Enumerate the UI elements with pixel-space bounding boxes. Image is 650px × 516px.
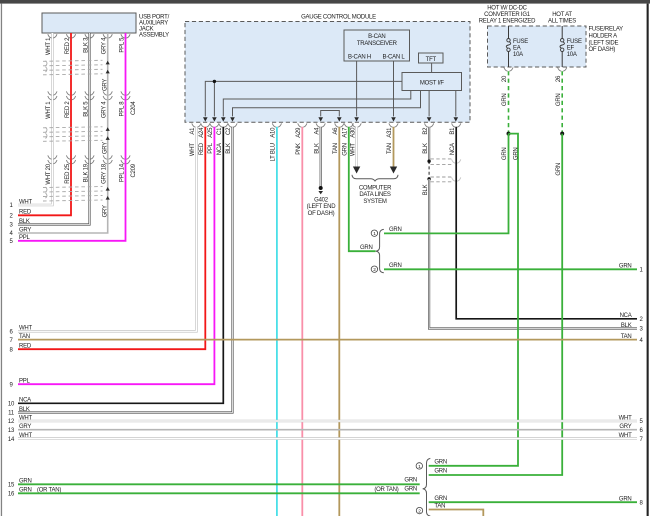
- arrow WHT A30 to computer data lines: [353, 167, 360, 174]
- svg-text:20: 20: [502, 75, 508, 82]
- svg-text:(OR TAN): (OR TAN): [374, 487, 398, 493]
- svg-text:EA: EA: [513, 46, 521, 52]
- wire LT BLU pin A10 to bottom edge: [276, 127, 278, 516]
- GRN label on dashed EF wire: [556, 94, 562, 107]
- connector label C209: [131, 163, 137, 177]
- svg-text:WHT 1: WHT 1: [46, 101, 52, 119]
- svg-text:NCA: NCA: [217, 143, 223, 155]
- svg-text:TFT: TFT: [426, 57, 437, 63]
- wire BLK pin B2 upper segment: [428, 127, 430, 161]
- svg-text:COMPUTER: COMPUTER: [359, 185, 392, 191]
- svg-text:11: 11: [8, 411, 15, 417]
- svg-text:GRN: GRN: [514, 148, 520, 161]
- svg-text:GRY 4: GRY 4: [102, 37, 108, 54]
- hot at all times label: [548, 12, 576, 25]
- splice dot on EA GRN wire: [507, 132, 511, 136]
- module pin A6 connector: [335, 123, 344, 127]
- splice dot on BLK at inline connector bottom: [427, 177, 430, 180]
- circled 2 connector id: [371, 266, 377, 273]
- svg-text:(LEFT END: (LEFT END: [307, 204, 337, 210]
- left edge row 3 BLK: [9, 219, 29, 229]
- pin label C2: [226, 127, 232, 135]
- svg-text:FUSE: FUSE: [513, 39, 528, 45]
- GRN label bottom splice wire 1a: [434, 459, 447, 465]
- wire TAN pin A6 to bottom edge: [338, 127, 340, 516]
- svg-text:HOT W/ DC-DC: HOT W/ DC-DC: [487, 6, 527, 12]
- svg-text:C2: C2: [226, 127, 232, 135]
- GRN label bottom splice wire 1b: [434, 469, 447, 475]
- inline connector C209 on wire PPL pin 14: [121, 155, 130, 163]
- TFT box: [419, 53, 444, 63]
- inline connector C204 on wire PPL pin 8: [121, 91, 130, 99]
- wire WHT pin A1 to left edge row 6: [18, 127, 196, 331]
- pin entry arrow at x=393.5: [391, 117, 396, 121]
- connector at fuse box, fuse EF output pin 26: [558, 67, 567, 71]
- svg-text:TAN: TAN: [434, 503, 445, 509]
- svg-text:A31: A31: [387, 127, 393, 138]
- svg-text:OF DASH): OF DASH): [308, 211, 335, 217]
- left edge row 14 WHT: [8, 433, 33, 443]
- connector at USB assembly, wire GRY 4: [103, 34, 112, 38]
- fuse/relay holder A dashed box: [488, 26, 587, 67]
- shield drain arrows section 3: [106, 187, 110, 200]
- USB port/auxiliary jack assembly box: [42, 13, 136, 33]
- svg-text:13: 13: [8, 428, 15, 434]
- svg-text:OF DASH): OF DASH): [589, 47, 616, 53]
- label PPL 14: [119, 163, 125, 182]
- svg-text:RED: RED: [19, 210, 32, 216]
- svg-text:AUXILIARY: AUXILIARY: [139, 20, 168, 26]
- svg-text:GRY: GRY: [19, 227, 31, 233]
- svg-text:DATA LINES: DATA LINES: [359, 192, 391, 198]
- wire PPL from USB assembly pin 5 down to left edge row: [18, 33, 126, 241]
- svg-text:16: 16: [8, 492, 15, 498]
- svg-text:PNK: PNK: [296, 143, 302, 155]
- svg-text:RED 2: RED 2: [65, 37, 71, 54]
- left edge row 8 RED: [9, 344, 31, 354]
- wire RED pin A24 to left edge row 8: [18, 127, 205, 349]
- svg-text:26: 26: [556, 75, 562, 82]
- connector label C204: [131, 101, 137, 115]
- pin entry arrow at x=429.1: [427, 117, 432, 121]
- svg-text:GRN: GRN: [556, 163, 562, 176]
- svg-text:PPL 14: PPL 14: [119, 163, 125, 182]
- internal wire MOST I/F to pin C2: [233, 91, 421, 117]
- svg-text:LT BLU: LT BLU: [271, 143, 277, 161]
- GRN label on dashed EA wire: [502, 94, 508, 107]
- right edge row 7 WHT: [619, 433, 644, 443]
- left edge row 4 GRY: [9, 227, 31, 237]
- middle splice brace: [376, 229, 384, 272]
- svg-text:BLK: BLK: [423, 184, 429, 195]
- computer data lines system label: [359, 185, 392, 205]
- GRY shield label section 2: [102, 142, 108, 154]
- module pin A4 connector: [316, 123, 325, 127]
- label RED 25: [65, 163, 71, 183]
- pin label B2: [423, 127, 429, 135]
- svg-text:GRN: GRN: [389, 263, 402, 269]
- module pin A30 connector: [352, 123, 361, 127]
- wire RED from USB assembly pin 2 down to left edge row: [18, 33, 71, 215]
- (OR TAN) GRN label row 16 at splice: [374, 487, 417, 493]
- svg-text:GRY 4: GRY 4: [102, 101, 108, 118]
- left edge row 7 TAN: [9, 334, 29, 344]
- wire color label PPL at pin A25: [208, 142, 214, 154]
- svg-text:GRN: GRN: [434, 469, 447, 475]
- svg-text:10A: 10A: [567, 52, 577, 58]
- pin label A17: [343, 127, 349, 138]
- left edge row 9 PPL: [9, 379, 30, 389]
- label BLK 5: [83, 101, 89, 117]
- computer data lines brace: [352, 175, 398, 181]
- svg-text:C204: C204: [131, 101, 137, 115]
- wire BLK from USB assembly pin 3 down to left edge row: [18, 33, 90, 225]
- circled 1 connector id: [371, 230, 377, 237]
- svg-text:MOST I/F: MOST I/F: [420, 80, 444, 86]
- svg-text:A6: A6: [333, 127, 339, 135]
- left edge row 5 PPL: [9, 235, 30, 245]
- GRN wire EF main down to bottom splice: [429, 134, 563, 475]
- wire BLK pin B2 lower segment to right edge row 3: [429, 179, 637, 329]
- GRN label splice 2 wire: [389, 263, 402, 269]
- pin entry arrow at x=232.5: [230, 117, 235, 121]
- wire PPL pin A25 to left edge row 9: [18, 127, 214, 384]
- wire WHT left row 14 to right row 7: [18, 437, 637, 440]
- svg-text:GRN: GRN: [343, 143, 349, 156]
- svg-text:JACK: JACK: [139, 27, 154, 33]
- wire color label TAN at pin A6: [333, 143, 339, 154]
- GRN label incoming A17 wire: [360, 245, 373, 251]
- svg-text:B1: B1: [450, 127, 456, 135]
- svg-text:FUSE: FUSE: [567, 39, 582, 45]
- svg-text:SYSTEM: SYSTEM: [363, 199, 386, 205]
- splice dot on BLK at inline connector top: [427, 160, 430, 163]
- GRN label EA main below dot: [502, 148, 508, 161]
- internal wire TFT to MOST I/F: [431, 63, 433, 73]
- label WHT 20: [46, 163, 52, 184]
- label BLK 3: [83, 37, 89, 53]
- svg-text:GRN: GRN: [404, 478, 417, 484]
- svg-text:RELAY 1 ENERGIZED: RELAY 1 ENERGIZED: [479, 19, 536, 25]
- fuse EA 10A: [506, 26, 528, 67]
- svg-text:TAN: TAN: [387, 143, 393, 154]
- svg-text:A4: A4: [314, 127, 320, 135]
- svg-text:GRN: GRN: [434, 459, 447, 465]
- svg-text:WHT: WHT: [19, 199, 32, 205]
- wire color label BLK at pin B2: [423, 143, 429, 154]
- wire color label LT BLU at pin A10: [271, 143, 277, 161]
- right edge row 2 NCA: [620, 313, 644, 323]
- svg-text:10A: 10A: [513, 52, 523, 58]
- svg-text:EF: EF: [567, 46, 575, 52]
- inline connector C204 on wire RED pin 2: [66, 91, 75, 99]
- wire NCA pin C1 to left edge row 10: [18, 127, 223, 404]
- arrow TAN A31 to computer data lines: [390, 167, 397, 174]
- inline connector C209 on wire GRY pin 18: [103, 155, 112, 163]
- wire GRN (OR TAN) left row 16 to bottom splice: [18, 492, 420, 494]
- left edge row 16 GRN (OR TAN): [8, 488, 61, 498]
- wire color label BLK at pin C2: [226, 143, 232, 154]
- module pin A1 connector: [192, 123, 201, 127]
- wire color label BLK at pin A4: [314, 143, 320, 154]
- twisted/shielded bundle section 2: [43, 127, 103, 142]
- svg-text:BLK: BLK: [423, 143, 429, 154]
- label RED 2: [65, 101, 71, 118]
- svg-text:A17: A17: [343, 127, 349, 138]
- module pin A29 connector: [298, 123, 307, 127]
- right edge row 4 TAN: [621, 334, 644, 344]
- wire color label WHT at pin A30: [350, 143, 356, 156]
- pin label A10: [271, 127, 277, 138]
- svg-text:B-CAN H: B-CAN H: [348, 55, 371, 61]
- connector at USB assembly, wire PPL 5: [121, 34, 130, 38]
- GRN label row 15 at splice: [404, 478, 417, 484]
- wire color label PNK at pin A29: [296, 143, 302, 155]
- svg-text:CONVERTER IG1: CONVERTER IG1: [484, 12, 531, 18]
- module pin A24 connector: [201, 123, 210, 127]
- circled 2 connector id bottom: [416, 507, 422, 514]
- module pin A31 connector: [389, 123, 398, 127]
- svg-text:GRN: GRN: [502, 94, 508, 107]
- internal wire MOST I/F to pins A24 and A25: [205, 80, 402, 117]
- svg-text:NCA: NCA: [620, 313, 632, 319]
- wire color label TAN at pin A31: [387, 143, 393, 154]
- module pin C1 connector: [219, 123, 228, 127]
- svg-text:C209: C209: [131, 163, 137, 177]
- GRY shield label section 3: [102, 205, 108, 217]
- pin label A4: [314, 127, 320, 135]
- internal wire B-CAN L to pin A31: [393, 61, 395, 116]
- svg-text:PPL: PPL: [19, 235, 31, 241]
- USB port assembly label: [139, 14, 170, 38]
- hot w/ dc-dc converter feed label: [479, 6, 536, 25]
- module pin C2 connector: [228, 123, 237, 127]
- svg-text:PPL 5: PPL 5: [119, 37, 125, 53]
- pin entry arrow at x=214.4: [212, 117, 217, 121]
- connector at USB assembly, wire RED 2: [66, 34, 75, 38]
- svg-text:TRANSCEIVER: TRANSCEIVER: [357, 41, 398, 47]
- wire GRY left row 13 to right row 6: [18, 429, 637, 431]
- fuse EF 10A: [560, 26, 582, 67]
- wire GRN left row 15 to bottom splice: [18, 483, 420, 485]
- pin 26 label: [556, 75, 562, 82]
- label GRY 18: [102, 163, 108, 184]
- left edge row 15 GRN: [8, 479, 32, 489]
- shield drain arrows section 2: [106, 127, 110, 140]
- label GRY 4: [102, 101, 108, 118]
- label PPL 5: [119, 37, 125, 53]
- left edge row 10 NCA: [8, 398, 31, 408]
- svg-text:BLK 5: BLK 5: [83, 101, 89, 117]
- ground G402 symbol: [318, 186, 323, 194]
- pin 20 label: [502, 75, 508, 82]
- circled 1 connector id bottom: [416, 463, 422, 470]
- right edge row 1 GRN: [619, 264, 644, 274]
- left edge row 2 RED: [9, 210, 31, 220]
- internal wire MOST I/F to pin B2: [428, 91, 430, 117]
- page right border: [647, 4, 649, 516]
- dashed GRN wire from fuse EF: [561, 71, 563, 133]
- left edge row 12 WHT: [8, 415, 33, 425]
- module pin A25 connector: [210, 123, 219, 127]
- svg-text:GRN: GRN: [389, 227, 402, 233]
- GRY shield label section 1: [102, 79, 108, 91]
- wire NCA pin B1 to right edge row 2: [456, 127, 637, 319]
- svg-text:A25: A25: [208, 127, 214, 138]
- pin entry arrow at x=223.3: [221, 117, 226, 121]
- wire WHT left row 12 to right row 5: [18, 420, 637, 423]
- MOST I/F box: [402, 73, 462, 91]
- internal jumper pin A4 to pin A6: [321, 111, 340, 117]
- internal wire MOST I/F to pin C1: [223, 91, 410, 117]
- svg-text:GRN: GRN: [434, 496, 447, 502]
- wire color label NCA at pin B1: [450, 143, 456, 155]
- svg-text:GRY: GRY: [102, 142, 108, 154]
- GRN wire EA main run to splice 1 upper: [384, 134, 509, 234]
- svg-text:BLK: BLK: [314, 143, 320, 154]
- fuse/relay holder A label: [589, 27, 624, 53]
- inline connector C209 on wire RED pin 25: [66, 155, 75, 163]
- pin entry arrow at x=455.8: [454, 117, 459, 121]
- TAN label bottom splice wire 2b: [434, 503, 445, 509]
- label WHT 1: [46, 37, 52, 55]
- svg-text:ASSEMBLY: ASSEMBLY: [139, 33, 169, 39]
- svg-text:HOT AT: HOT AT: [552, 12, 572, 18]
- inline connector C204 on wire WHT pin 1: [48, 91, 57, 99]
- svg-text:10: 10: [8, 402, 15, 408]
- wire GRY from USB assembly pin 4 down to left edge row: [18, 33, 108, 233]
- shield drain arrows section 1: [106, 61, 110, 74]
- pin label A25: [208, 127, 214, 138]
- right edge row 8 GRN: [619, 497, 644, 507]
- left edge row 11 BLK: [8, 407, 30, 417]
- wire color label RED at pin A24: [199, 142, 205, 155]
- svg-text:USB PORT/: USB PORT/: [139, 14, 170, 20]
- svg-text:WHT 1: WHT 1: [46, 37, 52, 55]
- GRN wire bottom splice 2 to right edge row 8: [429, 501, 637, 503]
- wire color label WHT at pin A1: [190, 143, 196, 156]
- wire WHT pin A30 to computer data lines arrow: [355, 127, 358, 167]
- pin entry arrow at x=320.7: [318, 117, 323, 121]
- right edge row 5 WHT: [619, 415, 644, 425]
- svg-text:GRY 18: GRY 18: [102, 163, 108, 184]
- left edge row 6 WHT: [9, 326, 32, 336]
- right edge row 6 GRY: [619, 424, 643, 434]
- wire color label NCA at pin C1: [217, 143, 223, 155]
- internal wire MOST I/F to pin B1: [455, 91, 457, 117]
- svg-text:GRN: GRN: [502, 148, 508, 161]
- svg-text:A10: A10: [271, 127, 277, 138]
- svg-text:NCA: NCA: [450, 143, 456, 155]
- wire PNK pin A29 to bottom edge: [301, 127, 303, 516]
- wire WHT from USB assembly pin 1 down to left edge row: [18, 33, 52, 205]
- GRN branch wire from EA dot down to bottom splice: [429, 134, 518, 466]
- GRN label EF below dot: [556, 163, 562, 176]
- label WHT 1: [46, 101, 52, 119]
- inline connector C204 on wire BLK pin 5: [85, 91, 94, 99]
- twisted/shielded bundle section 1: [43, 60, 103, 75]
- svg-text:GRY: GRY: [102, 205, 108, 217]
- svg-text:FUSE/RELAY: FUSE/RELAY: [589, 27, 624, 33]
- pin label A30: [350, 127, 356, 138]
- wire TAN left row 7 to right row 4: [18, 339, 637, 341]
- splice dot on EF GRN wire: [560, 132, 564, 136]
- svg-text:B2: B2: [423, 127, 429, 135]
- inline connector C209 on wire BLK pin 19: [85, 155, 94, 163]
- connector at USB assembly, wire WHT 1: [48, 34, 57, 38]
- svg-text:BLK 19: BLK 19: [83, 163, 89, 182]
- left edge row 13 GRY: [8, 424, 31, 434]
- GRN label bottom splice wire 2a: [434, 496, 447, 502]
- twisted/shielded bundle section 3: [43, 187, 103, 202]
- page left border: [1, 4, 2, 516]
- svg-text:BLK: BLK: [19, 219, 30, 225]
- left edge row 1 WHT: [9, 199, 32, 209]
- module pin B1 connector: [452, 123, 461, 127]
- right edge row 3 BLK: [621, 323, 644, 333]
- pin label C1: [217, 127, 223, 135]
- svg-text:GRN: GRN: [360, 245, 373, 251]
- module pin B2 connector: [425, 123, 434, 127]
- dashed GRN wire from fuse EA: [508, 71, 510, 133]
- svg-text:C1: C1: [217, 127, 223, 135]
- svg-text:GRN: GRN: [619, 264, 632, 270]
- inline connector dashed lines (BLK/NCA): [431, 159, 453, 182]
- svg-text:A29: A29: [296, 127, 302, 138]
- pin label A29: [296, 127, 302, 138]
- svg-text:BLK: BLK: [621, 323, 632, 329]
- svg-text:G402: G402: [314, 197, 329, 203]
- connector at fuse box, fuse EA output pin 20: [504, 67, 513, 71]
- svg-text:GRY: GRY: [102, 79, 108, 91]
- svg-text:15: 15: [8, 483, 15, 489]
- pin label A31: [387, 127, 393, 138]
- svg-text:GRN: GRN: [404, 487, 417, 493]
- svg-text:BLK: BLK: [226, 143, 232, 154]
- ground G402 label: [307, 197, 337, 217]
- label BLK 19: [83, 163, 89, 182]
- inline connector C204 on wire GRY pin 4: [103, 91, 112, 99]
- TAN wire bottom splice 2 down to bottom edge: [429, 510, 484, 516]
- svg-text:RED 2: RED 2: [65, 101, 71, 118]
- svg-text:(LEFT SIDE: (LEFT SIDE: [589, 40, 619, 46]
- wire BLK pin B2 dashed connector pass-through segment: [428, 161, 430, 179]
- svg-text:12: 12: [8, 419, 15, 425]
- svg-text:A24: A24: [199, 127, 205, 138]
- label GRY 4: [102, 37, 108, 54]
- wire BLK pin A4 to ground G402: [320, 127, 322, 187]
- pin label A6: [333, 127, 339, 135]
- GRN label on branch wire: [514, 148, 520, 161]
- module pin A10 connector: [272, 123, 281, 127]
- svg-text:GRN: GRN: [556, 94, 562, 107]
- internal wire B-CAN H to pin A30: [356, 61, 358, 116]
- label RED 2: [65, 37, 71, 54]
- wire GRN pin A17 to splice brace: [349, 127, 376, 251]
- svg-text:PPL 8: PPL 8: [119, 101, 125, 117]
- svg-text:TAN: TAN: [333, 143, 339, 154]
- wire TAN pin A31 to computer data lines arrow: [393, 127, 395, 167]
- inline connector C209 on wire WHT pin 20: [48, 155, 57, 163]
- connector marks on NCA wire B1: [452, 159, 461, 181]
- GRN label splice 1 upper wire: [389, 227, 402, 233]
- svg-text:GAUGE CONTROL MODULE: GAUGE CONTROL MODULE: [301, 14, 376, 20]
- connector at USB assembly, wire BLK 3: [85, 34, 94, 38]
- wire color label GRN at pin A17: [343, 143, 349, 156]
- page top bar: [0, 0, 650, 4]
- pin entry arrow at x=339.3: [337, 117, 342, 121]
- gauge control module title: [301, 14, 376, 20]
